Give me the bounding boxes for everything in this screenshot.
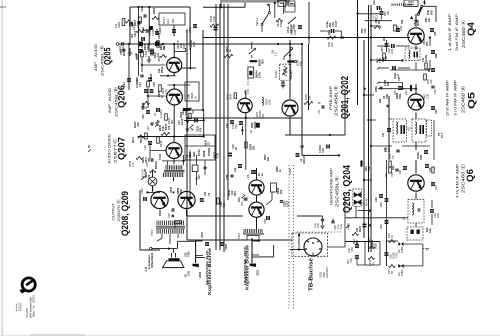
- resistor R202: [287, 59, 302, 66]
- wire: [289, 40, 291, 58]
- wire: [364, 88, 418, 90]
- wire: [150, 143, 166, 158]
- svg-text:0.033: 0.033: [151, 29, 155, 36]
- svg-text:22Ω: 22Ω: [192, 151, 196, 157]
- transformer T6: [407, 227, 430, 251]
- capacitor C641: [264, 216, 270, 224]
- svg-text:C614: C614: [136, 76, 139, 83]
- resistor R609: [114, 19, 125, 29]
- wire: [223, 4, 225, 252]
- capacitor C28: [416, 150, 428, 160]
- capacitor C29: [388, 150, 400, 159]
- transformer T801: [237, 229, 264, 240]
- transistor Q4: [408, 28, 424, 44]
- capacitor C642: [221, 242, 229, 250]
- text rc2: [394, 73, 400, 79]
- capacitor C640: [253, 170, 264, 176]
- svg-text:41k: 41k: [299, 61, 303, 66]
- capacitor C612: [155, 31, 161, 39]
- coil L202: [190, 125, 203, 133]
- svg-text:R41: R41: [428, 67, 431, 72]
- wire: [173, 158, 175, 164]
- transistor Q206 label: [108, 85, 127, 117]
- wire: [140, 190, 160, 250]
- svg-text:2SC460 Ⓐ: 2SC460 Ⓐ: [460, 85, 467, 113]
- capacitor C636: [204, 160, 207, 175]
- capacitor C619: [185, 24, 197, 33]
- svg-text:150k: 150k: [279, 21, 283, 27]
- wire: [241, 126, 243, 135]
- capacitor C49: [318, 145, 330, 154]
- resistor R625b: [352, 232, 359, 245]
- svg-text:10k: 10k: [130, 21, 134, 26]
- transistor Q203 label: [330, 165, 354, 213]
- svg-text:8 Ω: 8 Ω: [144, 266, 148, 271]
- text tl2: [144, 43, 150, 50]
- resistor R54: [360, 160, 371, 171]
- svg-text:R631: R631: [140, 136, 143, 143]
- resistor R36: [375, 53, 385, 63]
- svg-text:16A: 16A: [166, 19, 170, 24]
- svg-text:AMP: AMP: [94, 61, 98, 71]
- wire: [186, 109, 204, 119]
- wire: [367, 119, 376, 121]
- resistor R36b: [190, 155, 201, 200]
- switch S1 contact strip 2: [392, 4, 411, 6]
- wire: [285, 90, 345, 135]
- wire: [370, 5, 372, 252]
- resistor R611: [136, 21, 145, 32]
- text 9V: [141, 168, 147, 180]
- svg-text:100: 100: [204, 191, 207, 196]
- svg-text:T803: T803: [150, 229, 154, 236]
- socket J203: [290, 233, 329, 291]
- svg-text:16Ω: 16Ω: [188, 271, 191, 276]
- title block text: [15, 295, 36, 318]
- capacitor C48: [296, 153, 307, 164]
- text cl9: [120, 48, 126, 56]
- wire: [370, 145, 392, 147]
- switch S1 body: [278, 1, 295, 7]
- wire: [377, 82, 403, 89]
- svg-text:R44: R44: [392, 165, 395, 170]
- svg-text:0.01: 0.01: [436, 212, 440, 218]
- svg-text:20k: 20k: [279, 189, 283, 194]
- transistor Q207: [166, 143, 182, 159]
- resistor R63: [367, 238, 375, 249]
- wire: [415, 223, 417, 227]
- svg-text:2SB77Ⓒ: 2SB77Ⓒ: [112, 138, 118, 163]
- svg-text:C47: C47: [317, 109, 321, 114]
- svg-text:0.02: 0.02: [193, 42, 196, 47]
- text R630: [205, 139, 211, 146]
- wire: [345, 217, 408, 219]
- svg-text:C66: C66: [187, 94, 191, 99]
- svg-text:4.5: 4.5: [387, 11, 390, 15]
- svg-text:1 st AM IF AMP: 1 st AM IF AMP: [448, 13, 452, 51]
- ground: [300, 146, 304, 148]
- svg-text:20/6V: 20/6V: [134, 121, 137, 128]
- svg-text:AMP: AMP: [108, 103, 112, 113]
- capacitor C620: [214, 27, 218, 31]
- svg-text:2nd FM IF AMP: 2nd FM IF AMP: [455, 13, 459, 51]
- svg-text:2SC458LⒷ: 2SC458LⒷ: [333, 84, 340, 116]
- svg-text:33k: 33k: [145, 28, 148, 33]
- svg-text:C2/5: C2/5: [264, 218, 267, 224]
- capacitor C55: [346, 255, 359, 264]
- svg-text:32B: 32B: [356, 240, 359, 245]
- capacitor C32: [377, 44, 410, 54]
- zig tl: [126, 20, 133, 23]
- potentiometer VR201: [275, 64, 293, 80]
- wire: [148, 7, 150, 44]
- svg-text:R628: R628: [150, 73, 153, 80]
- svg-text:6.3V: 6.3V: [144, 171, 148, 177]
- capacitor C16: [377, 66, 410, 70]
- resistor R628: [147, 73, 153, 87]
- text cl12: [134, 121, 140, 128]
- svg-text:40V: 40V: [131, 33, 134, 38]
- svg-text:560: 560: [223, 202, 226, 207]
- module R633 box: [185, 135, 215, 160]
- svg-text:35V: 35V: [346, 259, 350, 264]
- resistor R41: [425, 63, 431, 72]
- svg-text:50D: 50D: [430, 10, 434, 15]
- wire: [358, 14, 392, 21]
- svg-text:C27: C27: [382, 132, 385, 137]
- svg-text:+17: +17: [397, 73, 400, 78]
- resistor R206: [245, 142, 256, 150]
- resistor R43: [423, 93, 430, 99]
- text C37: [398, 76, 401, 81]
- svg-text:3.3k: 3.3k: [426, 93, 430, 99]
- svg-text:J202: J202: [198, 271, 202, 278]
- ground: [141, 103, 145, 109]
- svg-text:3.3u: 3.3u: [313, 222, 317, 228]
- capacitor C633: [241, 197, 247, 206]
- svg-text:20k: 20k: [257, 123, 260, 128]
- capacitor C632b: [184, 118, 205, 122]
- svg-text:J201: J201: [256, 269, 260, 276]
- svg-text:UKW-Transistor-Koffer: UKW-Transistor-Koffer: [29, 297, 32, 318]
- transistor Q6 label: [456, 162, 477, 198]
- text cl2: [383, 36, 386, 41]
- svg-text:470k: 470k: [212, 16, 216, 22]
- capacitor C39: [391, 169, 399, 177]
- svg-text:AUDIO: AUDIO: [94, 44, 98, 57]
- svg-text:R35: R35: [426, 41, 429, 46]
- resistor R654: [248, 67, 262, 86]
- text misc2: [178, 118, 184, 125]
- capacitor C616b: [135, 49, 143, 58]
- svg-text:Q5: Q5: [467, 91, 478, 109]
- resistor R618: [209, 15, 219, 27]
- wire: [150, 238, 196, 253]
- svg-text:10V: 10V: [183, 44, 186, 49]
- wire: [119, 43, 303, 45]
- svg-text:0.01: 0.01: [388, 153, 392, 159]
- capacitor C630: [244, 89, 250, 94]
- svg-text:2SC458L Ⓑ: 2SC458L Ⓑ: [99, 45, 105, 76]
- text cl16: [276, 166, 282, 172]
- wire: [297, 231, 343, 233]
- resistor R614: [142, 101, 150, 109]
- wire: [130, 6, 190, 50]
- capacitor C44b: [375, 194, 383, 202]
- svg-text:10k: 10k: [428, 17, 431, 22]
- capacitor C615: [147, 29, 155, 36]
- wire: [128, 43, 150, 90]
- text cl11: [182, 108, 188, 116]
- svg-text:(4x45): (4x45): [425, 55, 428, 62]
- resistor R14: [387, 264, 395, 274]
- module box: [404, 0, 418, 7]
- capacitor C637: [200, 191, 211, 202]
- svg-text:+4.5V: +4.5V: [293, 24, 296, 31]
- switch SW1-2a: [255, 1, 284, 32]
- wire: [370, 25, 381, 27]
- capacitor C43: [380, 198, 389, 207]
- resistor R47: [432, 167, 434, 173]
- svg-text:C63: C63: [235, 124, 238, 129]
- capacitor C616c: [139, 42, 159, 47]
- text tl5: [190, 40, 196, 48]
- capacitor C34: [290, 25, 302, 35]
- capacitor C36b: [431, 68, 435, 72]
- wire: [288, 165, 290, 310]
- module PC01 box: [185, 82, 199, 101]
- svg-text:R39b: R39b: [375, 86, 378, 92]
- capacitor C37b: [431, 106, 438, 114]
- svg-text:0.0033: 0.0033: [159, 26, 162, 34]
- capacitor C42: [430, 200, 440, 225]
- wire: [297, 216, 325, 228]
- svg-text:100: 100: [364, 28, 367, 33]
- svg-text:R635: R635: [190, 92, 194, 99]
- resistor R647: [132, 135, 144, 143]
- svg-text:Q201, Q202: Q201, Q202: [340, 76, 351, 119]
- capacitor C30: [373, 0, 390, 16]
- node A: [220, 3, 222, 9]
- capacitor C35b: [430, 28, 437, 36]
- text 45v: [346, 223, 351, 230]
- svg-text:C37: C37: [435, 109, 438, 114]
- svg-text:C26: C26: [434, 89, 437, 94]
- transformer T7: [385, 119, 407, 152]
- svg-text:SW1-2: SW1-2: [255, 17, 259, 26]
- svg-text:R653A: R653A: [155, 161, 158, 169]
- svg-text:1N60: 1N60: [400, 269, 404, 276]
- svg-text:Blatt - Nr.: Blatt - Nr.: [32, 305, 36, 317]
- transformer T5 box2: [427, 120, 435, 160]
- text cl7: [131, 30, 137, 38]
- capacitor C26: [431, 86, 437, 94]
- capacitor C53: [347, 244, 359, 253]
- transistor Q205: [167, 58, 182, 73]
- svg-text:43k: 43k: [367, 166, 371, 171]
- wire: [301, 2, 310, 45]
- svg-text:0.04: 0.04: [247, 89, 250, 94]
- wire: [187, 117, 302, 119]
- transistor Q6: [408, 175, 424, 191]
- svg-text:HV-4S: HV-4S: [365, 198, 369, 206]
- svg-text:4.7k: 4.7k: [135, 53, 138, 58]
- text misc3: [361, 28, 367, 33]
- svg-text:C35: C35: [434, 31, 437, 36]
- text cl17: [226, 174, 234, 180]
- svg-text:2SC460 Ⓒ: 2SC460 Ⓒ: [460, 163, 467, 193]
- svg-text:C11: C11: [234, 167, 237, 172]
- svg-text:4.7k: 4.7k: [217, 153, 220, 158]
- svg-text:WK: WK: [171, 19, 175, 23]
- wire: [257, 168, 293, 229]
- capacitor C31: [372, 8, 384, 20]
- capacitor C639: [228, 144, 238, 157]
- capacitor C632: [250, 123, 260, 133]
- svg-text:R605: R605: [152, 7, 156, 14]
- svg-text:C25: C25: [143, 145, 147, 150]
- resistor R610b: [151, 49, 160, 58]
- resistor R649: [128, 156, 143, 167]
- wire: [146, 177, 174, 193]
- svg-text:C633: C633: [201, 231, 204, 238]
- svg-text:2SB370 Ⓑ: 2SB370 Ⓑ: [115, 200, 121, 222]
- text cl6: [375, 86, 383, 92]
- capacitor C625: [143, 141, 152, 150]
- speaker LS801: [144, 251, 190, 277]
- capacitor C622: [150, 82, 157, 93]
- wire: [219, 4, 221, 250]
- transformer T4: [405, 48, 428, 62]
- lamp TH-2E: [141, 169, 157, 186]
- svg-text:T203: T203: [158, 154, 162, 160]
- svg-text:C44: C44: [380, 224, 383, 229]
- svg-text:C613: C613: [134, 30, 137, 37]
- svg-text:10.7: 10.7: [440, 132, 444, 138]
- text tl4: [177, 40, 186, 49]
- svg-text:1N60: 1N60: [400, 246, 404, 253]
- svg-text:47u: 47u: [185, 28, 189, 33]
- svg-text:1-2: 1-2: [274, 52, 278, 56]
- svg-text:47k: 47k: [157, 52, 160, 57]
- transformer T601 box: [159, 13, 185, 25]
- svg-text:20k: 20k: [387, 81, 390, 86]
- wire: [139, 7, 165, 76]
- transistor Q208: [151, 191, 168, 208]
- capacitor C33: [381, 40, 389, 52]
- wire: [138, 136, 204, 138]
- svg-text:4.7/25V: 4.7/25V: [160, 109, 163, 118]
- capacitor C624: [146, 122, 153, 131]
- svg-text:C30: C30: [373, 0, 376, 5]
- wire: [402, 142, 430, 150]
- svg-text:C630: C630: [170, 186, 173, 193]
- transistor Q5: [408, 94, 424, 110]
- transformer T203: [158, 154, 185, 177]
- svg-text:R40: R40: [404, 90, 408, 95]
- wire: [152, 171, 154, 191]
- wire: [141, 58, 166, 72]
- text q207r: [186, 152, 192, 158]
- svg-text:0.012: 0.012: [287, 200, 290, 207]
- wire: [203, 37, 410, 39]
- svg-text:50B: 50B: [426, 10, 430, 15]
- capacitor C212: [280, 200, 290, 207]
- jack J202: [192, 240, 212, 295]
- text cl3: [379, 98, 390, 107]
- svg-text:2SC458LⒷ: 2SC458LⒷ: [334, 175, 341, 207]
- svg-text:HEADPHONE JACK: HEADPHONE JACK: [243, 245, 247, 285]
- text misc: [165, 123, 171, 130]
- wire: [245, 118, 247, 170]
- svg-text:22k: 22k: [356, 227, 359, 232]
- coil L201: [262, 97, 272, 105]
- resistor R605: [152, 7, 159, 19]
- wire: [415, 160, 417, 199]
- svg-text:6.3V: 6.3V: [339, 223, 343, 229]
- resistor R34: [394, 25, 403, 31]
- wire: [129, 7, 131, 44]
- wire: [147, 44, 151, 62]
- capacitor C621: [135, 78, 148, 93]
- wire: [415, 84, 417, 119]
- capacitor C615b: [148, 78, 152, 82]
- svg-text:C22: C22: [142, 114, 145, 119]
- capacitor C207: [247, 170, 255, 178]
- resistor R33: [327, 30, 342, 40]
- svg-text:PC01: PC01: [197, 149, 201, 156]
- capacitor C622b: [142, 110, 150, 119]
- text cl8: [156, 26, 162, 35]
- svg-text:PRE AMP: PRE AMP: [329, 85, 333, 110]
- wire: [215, 4, 217, 250]
- wire: [370, 59, 384, 61]
- svg-text:9V: 9V: [87, 145, 91, 148]
- svg-text:J203: J203: [319, 271, 323, 278]
- transistor Q208 label: [112, 191, 131, 236]
- svg-text:3.3k: 3.3k: [347, 247, 351, 253]
- svg-text:10/16: 10/16: [416, 152, 420, 159]
- svg-text:22/6.3V: 22/6.3V: [303, 155, 306, 164]
- svg-text:700k: 700k: [399, 93, 402, 99]
- capacitor C627: [140, 187, 147, 201]
- resistor R642b: [238, 195, 245, 203]
- transistor Q209: [178, 191, 195, 208]
- svg-text:C23: C23: [146, 126, 150, 131]
- text cl15: [264, 154, 270, 161]
- svg-text:C4B: C4B: [386, 94, 389, 99]
- svg-text:1000Ω: 1000Ω: [207, 147, 211, 156]
- text rc4: [383, 93, 402, 99]
- transformer T803: [150, 221, 185, 242]
- svg-text:AUDIO: AUDIO: [108, 88, 112, 101]
- svg-text:18k: 18k: [378, 19, 381, 24]
- capacitor C210: [226, 120, 234, 128]
- wire: [203, 110, 205, 138]
- transistor Q4 label: [448, 13, 477, 51]
- resistor R615: [165, 114, 174, 124]
- switch S1-4: [285, 4, 296, 33]
- wire: [327, 232, 345, 247]
- svg-text:2.5k: 2.5k: [385, 56, 388, 61]
- resistor R650: [174, 221, 181, 228]
- svg-text:470k: 470k: [188, 251, 191, 257]
- wire: [186, 30, 188, 240]
- svg-text:10/16: 10/16: [141, 41, 144, 48]
- svg-text:C33: C33: [381, 47, 384, 52]
- wire: [202, 30, 204, 110]
- capacitor C620b: [180, 108, 190, 118]
